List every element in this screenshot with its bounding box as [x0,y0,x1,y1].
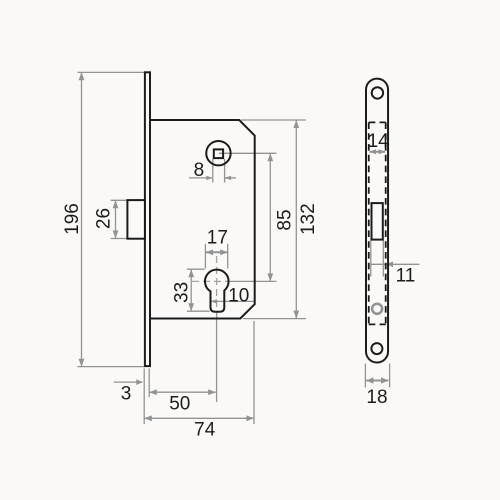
ext line latch bottom [111,238,128,240]
svg-text:132: 132 [298,203,319,235]
dimension grey thin lines [78,72,307,424]
svg-text:14: 14 [368,131,390,152]
ext line square left [212,159,214,183]
arrow 33 down [188,303,194,311]
faceplate side view [145,72,150,366]
front view dimension lines [365,152,419,388]
arrow 85 up [267,153,273,161]
spindle hub circle [206,141,230,165]
arrow 11 pointing left [387,261,394,267]
svg-text:74: 74 [194,419,216,440]
arrow 26 up [113,200,119,208]
arrow 74 left [144,415,152,421]
arrow 196 up [79,72,85,80]
hidden case dashed left [368,122,370,324]
arrow 50 right [208,389,216,395]
svg-text:50: 50 [169,394,190,415]
dim line 74 [144,417,254,419]
arrow 8 left pointing right [206,176,213,180]
arrow 18 right [381,377,388,383]
spindle square hole [214,149,223,158]
arrow 17 left [206,249,214,255]
arrow 132 up [293,120,299,128]
ext line faceplate left bottom [143,369,145,425]
ext line case right bottom [253,321,255,424]
arrow 196 down [79,359,85,367]
arrow 14 right [379,149,386,154]
ext line case bottom right [243,318,306,320]
svg-text:3: 3 [121,383,132,404]
screw hole top [372,87,383,98]
centerline cylinder horizontal dashed [192,280,230,282]
svg-text:11: 11 [396,266,416,287]
faceplate outline rounded [366,79,388,363]
faceplate front view [366,79,388,363]
dim line 3 leader [114,381,143,383]
ext line cyl right [227,244,229,269]
ext line cylinder center right [230,280,277,282]
dim line 11 [371,263,420,265]
dim line 14 [369,151,385,153]
ext line case top right [241,119,306,121]
ext line cylinder center bottom [216,313,218,402]
ext line spindle center right [219,152,277,154]
svg-text:18: 18 [366,387,387,408]
ext line latch top [111,199,128,201]
arrow 26 down [113,231,119,239]
dim line 33 [190,269,192,311]
screw hole bottom [371,343,382,354]
arrow 8 right pointing left [225,176,232,180]
latch block side view [127,200,145,239]
dimension texts [62,131,415,440]
svg-text:85: 85 [275,209,296,230]
euro cylinder keyhole [205,270,229,312]
arrow 10 left [210,299,217,303]
svg-text:196: 196 [62,203,83,235]
ext line faceplate right bottom [148,369,150,398]
ext line latch left bottom [370,241,372,277]
ext line square right [224,159,226,183]
arrow 85 down [267,273,273,281]
dim line 8 left [189,177,212,179]
arrow 33 up [188,269,194,277]
dim line 26 [115,200,117,238]
front view arrowheads [366,149,393,383]
ext line 33 top [187,268,205,270]
ext line cyl left [204,244,206,269]
ext line 33 bottom [187,310,210,312]
arrow 50 left [149,389,157,395]
svg-text:8: 8 [194,160,205,181]
arrow 3 pointing right [136,379,143,385]
centerline cylinder vertical dashed [216,256,218,313]
dim line 17 [206,251,228,253]
lock body side view [127,72,254,366]
arrow 14 left [369,149,376,154]
arrow 74 right [246,415,254,421]
ext line faceplate top [78,71,145,73]
svg-text:26: 26 [94,208,115,229]
dimension arrowheads grey [79,72,300,421]
ext line plate left bottom [364,364,366,388]
dim line 50 [149,391,216,393]
hidden case dashed right [385,122,387,324]
arrow 17 right [220,249,228,255]
hidden case dashed top [369,121,386,123]
ext line faceplate bottom [78,366,145,368]
dim line 10 [210,300,254,302]
dim line 132 [295,120,297,319]
svg-text:10: 10 [228,285,249,306]
dim line 196 [81,72,83,366]
ext line plate right bottom [389,364,391,388]
dim line 8 right [225,177,236,179]
svg-text:33: 33 [172,282,193,303]
lock case outline [150,120,255,319]
dim line 85 [269,153,271,281]
ext line latch right bottom [382,241,384,277]
svg-text:17: 17 [207,227,228,248]
hidden case dashed bottom [369,323,386,325]
cylinder screw ring front [372,304,382,314]
dim line 18 [366,380,388,382]
arrow 18 left [366,377,373,383]
arrow 132 down [293,311,299,319]
latch front rect [372,203,383,240]
